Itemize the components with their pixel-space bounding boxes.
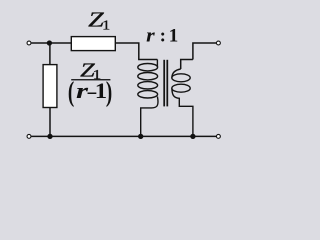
terminal bottom-left [27, 134, 31, 138]
junction dot top-left [47, 40, 52, 45]
wire top right from winding to terminal [193, 43, 216, 60]
svg-text:): ) [106, 76, 112, 108]
secondary winding entry curve [172, 69, 181, 78]
wire from R1 to corner down into left winding [115, 43, 157, 60]
wire shunt top [49, 43, 51, 65]
wire bottom rail [31, 135, 216, 137]
junction dot bottom shunt [47, 134, 52, 139]
primary winding (left, 4 loops) [156, 60, 158, 68]
terminal top-left [27, 41, 31, 45]
svg-text:1: 1 [102, 19, 110, 34]
junction dot bottom secondary [190, 134, 195, 139]
terminal bottom-right [216, 134, 220, 138]
resistor Z1 (series, top) [71, 37, 115, 51]
wire primary winding exit to bottom rail [141, 97, 158, 137]
terminal top-right [216, 41, 220, 45]
svg-text:1: 1 [169, 26, 179, 47]
resistor Z1/(r-1) (shunt, left) [43, 65, 57, 108]
wire right winding top jog [181, 60, 193, 70]
label Z1/(r-1) fraction [68, 60, 112, 108]
label r : 1 (transformer ratio) [146, 26, 178, 47]
transformer T1 [138, 60, 193, 137]
svg-text::: : [160, 26, 166, 47]
svg-text:r: r [146, 26, 155, 47]
core line 1 [163, 60, 165, 107]
junction dot bottom primary [138, 134, 143, 139]
wire secondary winding exit to bottom rail [172, 88, 193, 136]
svg-text:r− 1: r− 1 [76, 80, 107, 106]
label Z1 (series resistor) [88, 8, 110, 34]
wire top rail left [31, 42, 71, 44]
wire shunt bottom [49, 108, 51, 137]
svg-text:(: ( [68, 76, 74, 108]
core line 2 [166, 60, 168, 107]
